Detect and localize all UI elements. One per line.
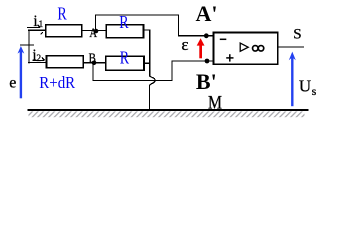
svg-text:R: R xyxy=(120,49,130,68)
svg-text:S: S xyxy=(293,27,301,43)
svg-text:i: i xyxy=(34,13,38,31)
svg-text:R+dR: R+dR xyxy=(39,74,75,92)
svg-text:U: U xyxy=(299,76,311,95)
svg-text:1: 1 xyxy=(39,20,44,30)
svg-text:B': B' xyxy=(196,69,217,94)
svg-text:2: 2 xyxy=(36,54,41,64)
svg-text:R: R xyxy=(119,14,129,33)
svg-text:B: B xyxy=(89,50,96,66)
svg-text:s: s xyxy=(312,84,317,98)
svg-text:R: R xyxy=(57,5,67,24)
svg-text:M: M xyxy=(208,92,222,112)
svg-text:A: A xyxy=(89,25,97,40)
svg-text:A': A' xyxy=(196,1,218,26)
svg-text:ε: ε xyxy=(181,35,188,54)
svg-text:e: e xyxy=(9,75,16,92)
